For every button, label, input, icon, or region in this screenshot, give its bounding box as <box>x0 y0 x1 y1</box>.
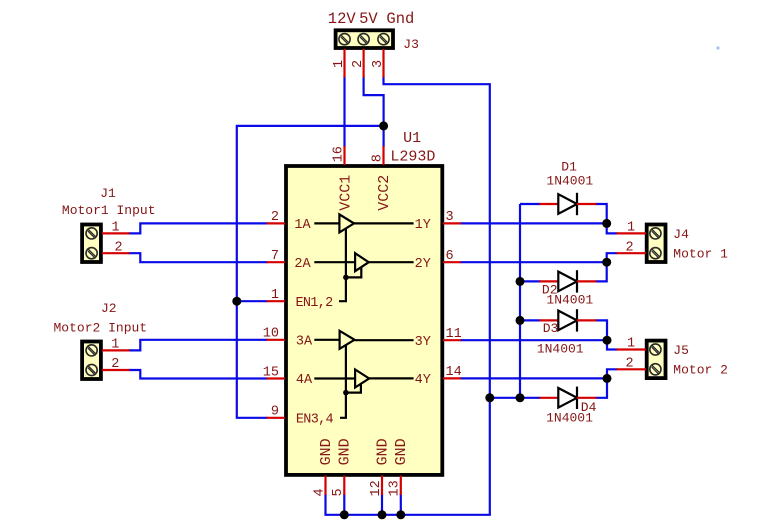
node 3Y/D3/J5.1 junction <box>603 336 612 345</box>
pin 7 (2A) stub <box>267 261 286 263</box>
svg-text:2: 2 <box>271 210 279 225</box>
connector J5 pin 2 stub <box>616 368 646 370</box>
wire D4 right up to 4Y junction <box>595 378 607 397</box>
wire 5V branch to enable rail <box>237 126 384 418</box>
pin 5 (GND) stub <box>343 476 345 496</box>
svg-text:GND: GND <box>318 438 335 465</box>
diode D1 left stub <box>539 203 558 205</box>
node D3 anode on diode rail <box>516 316 525 325</box>
svg-text:3: 3 <box>371 60 386 68</box>
wire 5V from J3 pin2 to U1 pin8 <box>364 77 384 148</box>
connector J4 pin 1 stub <box>616 232 646 234</box>
pin 15 (4A) stub <box>267 377 286 379</box>
svg-text:3Y: 3Y <box>415 335 431 350</box>
connector J3 body <box>336 30 393 48</box>
svg-text:5: 5 <box>331 488 346 496</box>
wire D4 link from gnd rail to diode rail <box>490 397 541 399</box>
svg-text:1: 1 <box>111 338 119 353</box>
pin 6 (2Y) stub <box>443 261 461 263</box>
buffer 2 input line <box>314 261 355 263</box>
wire J1 pin1 to 1A <box>129 223 268 233</box>
svg-text:5V: 5V <box>359 10 378 28</box>
svg-text:J1: J1 <box>100 186 116 201</box>
wire D2 left branch <box>520 280 540 282</box>
svg-text:Motor 2: Motor 2 <box>673 363 728 378</box>
connector J3 pin 1 screw <box>339 34 350 45</box>
buffer 4 output line <box>369 377 414 379</box>
connector J5 pin 1 screw <box>650 344 661 355</box>
svg-text:9: 9 <box>271 405 279 420</box>
svg-text:15: 15 <box>263 365 279 380</box>
pin 2 (1A) stub <box>267 222 286 224</box>
svg-text:4A: 4A <box>296 373 313 388</box>
diode D3 cathode bar <box>576 309 578 331</box>
node D2 anode on diode rail <box>516 277 525 286</box>
wire 4Y junction jog to J5 pin2 <box>607 369 617 378</box>
svg-text:2: 2 <box>111 357 119 372</box>
svg-text:Motor1 Input: Motor1 Input <box>62 203 156 218</box>
svg-text:2: 2 <box>351 60 366 68</box>
svg-text:11: 11 <box>446 327 462 342</box>
diode D3 triangle <box>558 311 577 331</box>
diode D4 right stub <box>577 397 596 399</box>
svg-text:12: 12 <box>369 480 384 496</box>
wire diode rail vertical <box>519 204 521 398</box>
connector J4 body <box>647 225 666 263</box>
op-amp U1 L293D body <box>286 166 442 475</box>
svg-text:VCC2: VCC2 <box>376 175 393 211</box>
diode D2 triangle <box>558 272 577 292</box>
svg-text:1: 1 <box>332 60 347 68</box>
connector J3 pin 1 stub <box>343 49 345 78</box>
connector J2 pin 2 screw <box>86 364 97 375</box>
svg-text:2: 2 <box>626 356 634 371</box>
wire EN1,2 stub from rail <box>237 300 268 302</box>
svg-text:J4: J4 <box>673 227 689 242</box>
svg-text:Motor2 Input: Motor2 Input <box>54 321 148 336</box>
node GND pin12 on bottom rail <box>378 510 387 519</box>
connector J2 body <box>82 342 101 380</box>
wire GND pin5 drop <box>343 494 345 515</box>
pin 12 (GND) stub <box>381 476 383 496</box>
svg-text:10: 10 <box>263 327 279 342</box>
diode D2 cathode bar <box>576 270 578 292</box>
wire EN1,2 internal riser <box>339 229 346 302</box>
wire 2Y to junction <box>460 261 607 263</box>
svg-text:8: 8 <box>370 154 385 162</box>
svg-text:GND: GND <box>374 438 391 465</box>
pin 13 (GND) stub <box>400 476 402 496</box>
connector J3 pin 2 stub <box>363 49 365 78</box>
node 4Y/D4/J5.2 junction <box>603 374 612 383</box>
svg-text:EN1,2: EN1,2 <box>296 296 334 311</box>
connector J4 pin 2 stub <box>616 252 646 254</box>
svg-text:1: 1 <box>627 337 635 352</box>
diode D2 right stub <box>577 280 596 282</box>
svg-text:3: 3 <box>446 210 454 225</box>
buffer 2 triangle <box>355 253 369 271</box>
node EN1,2 internal junction <box>343 275 349 281</box>
node GND pin5 on bottom rail <box>340 510 349 519</box>
svg-text:2Y: 2Y <box>415 257 431 272</box>
pin 9 (EN3,4) stub <box>267 417 286 419</box>
wire D3 right down to 3Y junction <box>595 320 607 340</box>
wire D3 left branch <box>520 319 540 321</box>
wire Gnd from J3 pin3 right and down the right side <box>326 77 490 515</box>
node diode rail bottom / D4 anode <box>516 393 525 402</box>
svg-text:Motor 1: Motor 1 <box>673 247 728 262</box>
svg-text:7: 7 <box>271 249 279 264</box>
svg-text:12V: 12V <box>328 10 357 28</box>
svg-text:D3: D3 <box>543 321 559 336</box>
wire J2 pin1 to 3A <box>129 340 268 351</box>
wire D1 left branch from diode rail <box>520 203 540 205</box>
node GND pin13 on bottom rail <box>396 510 405 519</box>
wire 3Y to junction <box>460 339 607 341</box>
buffer 1 input line <box>314 222 339 224</box>
artifact faint blue dot <box>716 46 719 49</box>
svg-text:1N4001: 1N4001 <box>537 341 584 356</box>
connector J5 pin 1 stub <box>616 348 646 350</box>
svg-text:1Y: 1Y <box>415 218 431 233</box>
svg-text:J3: J3 <box>403 37 419 52</box>
wire 12V from J3 pin1 down to U1 pin16 <box>343 77 345 148</box>
svg-text:GND: GND <box>393 438 410 465</box>
svg-text:EN3,4: EN3,4 <box>296 413 334 428</box>
diode D4 triangle <box>558 388 577 408</box>
svg-text:1N4001: 1N4001 <box>546 410 593 425</box>
diode D1 cathode bar <box>576 193 578 215</box>
svg-text:1N4001: 1N4001 <box>546 174 593 189</box>
svg-text:6: 6 <box>446 249 454 264</box>
pin 3 (1Y) stub <box>443 222 461 224</box>
connector J4 pin 2 screw <box>650 248 661 259</box>
connector J5 body <box>647 341 666 379</box>
pin 8 (VCC2) stub <box>382 146 384 165</box>
pin 14 (4Y) stub <box>443 377 461 379</box>
connector J4 pin 1 screw <box>650 228 661 239</box>
wire 2Y junction jog to J4 pin2 <box>607 253 618 262</box>
svg-text:GND: GND <box>337 438 354 465</box>
buffer 3 triangle <box>340 331 355 349</box>
pin 1 (EN1,2) stub <box>267 300 286 302</box>
wire 1Y to junction <box>460 222 607 224</box>
wire GND pin12 drop <box>381 494 383 515</box>
diode D3 left stub <box>539 319 558 321</box>
connector J1 pin 1 screw <box>86 228 97 239</box>
node 5V/VCC2/EN junction <box>379 121 388 130</box>
buffer 1 triangle <box>339 214 354 232</box>
diode D2 left stub <box>539 280 558 282</box>
svg-text:3A: 3A <box>296 335 313 350</box>
svg-text:14: 14 <box>446 365 462 380</box>
svg-text:Gnd: Gnd <box>386 10 414 28</box>
svg-text:D1: D1 <box>561 160 577 175</box>
svg-text:4: 4 <box>312 488 327 496</box>
node 1Y/D1/J4.1 junction <box>602 219 611 228</box>
connector J3 pin 3 screw <box>378 34 389 45</box>
svg-text:13: 13 <box>388 480 403 496</box>
wire J1 pin2 to 2A <box>129 253 268 262</box>
connector J2 pin 1 screw <box>86 345 97 356</box>
diode D4 left stub <box>539 397 558 399</box>
buffer 3 input line <box>314 339 339 341</box>
svg-text:1: 1 <box>627 221 635 236</box>
pin 16 (VCC1) stub <box>343 146 345 165</box>
svg-text:J2: J2 <box>101 301 117 316</box>
pin 10 (3A) stub <box>267 339 286 341</box>
diode D1 right stub <box>577 203 596 205</box>
wire D2 right up to 2Y junction <box>595 262 606 281</box>
connector J5 pin 2 screw <box>650 364 661 375</box>
wire D1 right to 1Y junction <box>595 204 606 223</box>
wire 4Y to junction <box>460 377 607 379</box>
svg-text:VCC1: VCC1 <box>337 175 354 211</box>
svg-text:4Y: 4Y <box>415 373 431 388</box>
wire EN3,4 branch to buffer 4 <box>346 384 361 393</box>
buffer 4 input line <box>314 377 355 379</box>
wire 1Y junction jog to J4 pin1 <box>607 223 618 233</box>
node EN3,4 internal junction <box>343 390 349 396</box>
node EN1,2 junction on rail <box>232 297 241 306</box>
svg-text:1: 1 <box>271 288 279 303</box>
diode D1 triangle <box>558 194 577 214</box>
connector J3 pin 2 screw <box>358 34 369 45</box>
node gnd rail / D4 row junction <box>485 393 494 402</box>
buffer 4 triangle <box>355 370 369 388</box>
diode D3 right stub <box>577 319 596 321</box>
wire EN1,2 branch to buffer 2 <box>346 267 361 277</box>
pin 11 (3Y) stub <box>443 339 461 341</box>
connector J1 pin 1 stub <box>102 232 130 234</box>
buffer 3 output line <box>355 339 414 341</box>
diode D4 cathode bar <box>576 387 578 409</box>
svg-text:1: 1 <box>112 221 120 236</box>
svg-text:J5: J5 <box>673 343 689 358</box>
node 2Y/D2/J4.2 junction <box>602 258 611 267</box>
wire GND pin13 drop <box>400 494 402 515</box>
connector J1 pin 2 screw <box>86 248 97 259</box>
svg-text:16: 16 <box>331 146 346 162</box>
buffer 2 output line <box>369 261 414 263</box>
svg-text:2: 2 <box>115 240 123 255</box>
svg-text:2: 2 <box>626 240 634 255</box>
connector J2 pin 2 stub <box>102 369 130 371</box>
svg-text:2A: 2A <box>294 257 311 272</box>
wire 3Y junction jog to J5 pin1 <box>607 340 617 349</box>
connector J1 pin 2 stub <box>102 252 130 254</box>
svg-text:1A: 1A <box>294 218 311 233</box>
buffer 1 output line <box>354 222 414 224</box>
pin 4 (GND) stub <box>324 476 326 496</box>
svg-text:1N4001: 1N4001 <box>546 293 593 308</box>
connector J1 body <box>82 225 101 263</box>
svg-text:L293D: L293D <box>390 149 435 166</box>
wire EN3,4 internal riser <box>340 345 346 418</box>
svg-text:U1: U1 <box>403 130 421 147</box>
connector J2 pin 1 stub <box>102 349 130 351</box>
connector J3 pin 3 stub <box>382 49 384 78</box>
wire J2 pin2 to 4A <box>129 370 268 379</box>
